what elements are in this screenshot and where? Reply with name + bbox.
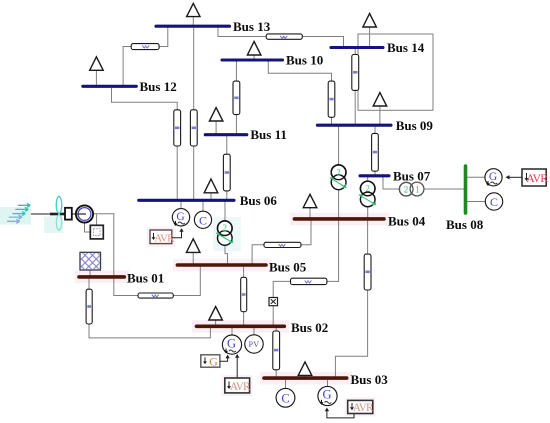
- svg-text:G: G: [322, 388, 331, 402]
- wire bus02 to line02-03: [275, 328, 277, 331]
- svg-text:2: 2: [365, 184, 370, 194]
- generator G1 bus06: [172, 209, 189, 226]
- svg-text:Bus 08: Bus 08: [446, 217, 484, 232]
- wire bus08 to compensator C4: [467, 201, 485, 203]
- wire bus01 to line01-02: [88, 278, 90, 289]
- wire bus03 to compensator C3: [285, 380, 287, 388]
- AVR block bus08: [522, 169, 548, 186]
- bus 01 bar: [79, 275, 124, 279]
- wire stem triangle bus14: [369, 27, 371, 48]
- load triangle bus11: [209, 108, 223, 121]
- wire line12-13 to bus12: [123, 47, 131, 86]
- svg-text:Bus 12: Bus 12: [140, 79, 177, 94]
- transformer 7-4: [359, 181, 376, 207]
- wire stem triangle bus04: [309, 207, 311, 218]
- svg-text:Bus 14: Bus 14: [387, 40, 425, 55]
- svg-text:G: G: [176, 211, 184, 223]
- wind generator: [76, 205, 93, 222]
- svg-text:Bus 01: Bus 01: [127, 271, 164, 286]
- generator G2 bus02: [222, 335, 241, 354]
- bus 09 bar: [317, 124, 391, 127]
- compensator C1 bus06: [194, 211, 211, 228]
- arrow AVR4 to G4: [506, 175, 523, 179]
- wire line03-04 to bus03: [335, 290, 367, 377]
- wire line10-11 to bus11: [235, 115, 237, 134]
- wire three-winding transformer to bus08: [424, 188, 464, 190]
- svg-text:AVR: AVR: [230, 381, 251, 393]
- bus 02 bar: [197, 324, 285, 328]
- wire line06-12 to bus06: [176, 146, 178, 199]
- generator G3 bus03: [318, 386, 337, 405]
- svg-text:AVR: AVR: [154, 232, 175, 244]
- load triangle bus02: [209, 307, 223, 321]
- line block 09-14: [352, 55, 359, 91]
- pink halo AVR bus02: [222, 375, 253, 396]
- load triangle bus12: [90, 57, 104, 71]
- wire bus07 to transformer 7-4: [367, 177, 369, 182]
- cyan backdrop wind arrows: [0, 207, 31, 225]
- AVR block bus03: [348, 400, 374, 414]
- wire line01-02 to bus02: [89, 324, 210, 338]
- svg-text:Bus 04: Bus 04: [388, 214, 426, 229]
- transformer 5-6: [216, 221, 233, 245]
- line block 09-10: [328, 81, 335, 117]
- wire bus10 to line09-10: [268, 61, 331, 81]
- TG block bus02: [201, 354, 220, 368]
- wire bus13 to line06-13: [193, 27, 195, 110]
- pink halo bus 02: [192, 320, 289, 333]
- line block 02-03: [273, 331, 280, 370]
- PV circle bus02: [245, 335, 263, 353]
- wind arrows: [7, 203, 30, 223]
- svg-text:C: C: [490, 195, 498, 209]
- svg-text:Bus 13: Bus 13: [233, 19, 271, 34]
- wire bus14 to line09-14: [354, 49, 356, 55]
- wire stem triangle bus13: [192, 16, 194, 25]
- svg-text:1: 1: [415, 184, 420, 194]
- wire bus06 to compensator C1: [202, 202, 204, 212]
- AVR block bus06: [150, 230, 175, 244]
- line block 02-05: [241, 277, 247, 311]
- line block 10-11: [233, 81, 240, 115]
- svg-text:Bus 02: Bus 02: [291, 320, 328, 335]
- line block 03-04: [364, 254, 371, 290]
- wire stem triangle bus12: [95, 70, 97, 86]
- wire bus13 to line12-13: [159, 27, 168, 47]
- transformer 4-9: [330, 165, 346, 190]
- crosshatch load bus01: [80, 252, 101, 270]
- turbine hub: [50, 213, 65, 216]
- pink halo bus 05: [173, 259, 271, 272]
- svg-text:Bus 10: Bus 10: [286, 53, 323, 68]
- pink halo AVR bus06: [147, 227, 176, 247]
- wire stem triangle bus06: [210, 192, 212, 199]
- wire transformer 4-9 to line02-04 junction: [327, 190, 339, 282]
- AVR block bus02: [225, 378, 251, 393]
- svg-text:G: G: [489, 171, 497, 183]
- wire line01-05 to bus05: [173, 266, 200, 296]
- load triangle bus04: [303, 194, 317, 207]
- line block 06-11: [223, 154, 230, 191]
- pink halo bus 01: [75, 271, 129, 284]
- svg-text:Bus 06: Bus 06: [240, 193, 278, 208]
- load triangle bus10: [247, 42, 261, 56]
- pink halo bus 03: [260, 372, 352, 385]
- wire wind generator to converter box: [85, 223, 91, 232]
- wire bus06 to transformer 5-6: [224, 202, 226, 222]
- bus 10 bar: [222, 58, 283, 61]
- arrow AVR2 to G2: [235, 354, 239, 378]
- wire line07-09 to bus07: [374, 171, 376, 174]
- wire bus12 to line06-12: [112, 88, 178, 110]
- wire stem triangle bus09: [379, 106, 381, 125]
- compensator C3 bus03: [276, 388, 295, 407]
- svg-text:Bus 09: Bus 09: [396, 118, 434, 133]
- svg-text:Bus 05: Bus 05: [269, 260, 307, 275]
- svg-text:AVR: AVR: [353, 402, 374, 414]
- converter box: [90, 225, 103, 239]
- pink halo bus 04: [290, 213, 389, 226]
- arrow AVR3 to G3: [325, 408, 354, 418]
- svg-text:Bus 07: Bus 07: [393, 168, 431, 183]
- wire line09-10 to bus09: [331, 117, 333, 124]
- wire bus02 to generator G2: [231, 328, 233, 335]
- breaker box bus02: [269, 298, 278, 306]
- wire bus06 to generator G1: [180, 202, 182, 209]
- wire bus05 to line04-05: [252, 245, 264, 264]
- wire bus02 to PV: [253, 328, 255, 335]
- cyan backdrop rotor: [44, 217, 63, 234]
- wire bus03 to generator G3: [327, 380, 329, 386]
- wire stem triangle bus10: [253, 55, 255, 60]
- line block 12-13: [131, 44, 159, 50]
- wire turbine to bus01 and line01-05: [92, 214, 138, 296]
- svg-text:Bus 11: Bus 11: [250, 127, 287, 142]
- compensator C4 bus08: [485, 193, 502, 210]
- svg-text:G: G: [227, 336, 236, 350]
- line block 13-14: [266, 34, 302, 39]
- wire line06-13 to bus06: [193, 146, 195, 199]
- line block 07-09: [372, 133, 379, 171]
- svg-text:Bus 03: Bus 03: [351, 372, 389, 387]
- wire line04-05 to bus04: [301, 220, 311, 245]
- svg-text:G: G: [209, 354, 218, 368]
- line block 04-05: [264, 242, 301, 247]
- pink halo AVR bus03: [345, 398, 376, 417]
- bus 11 bar: [205, 133, 247, 136]
- turbine shaft: [31, 213, 86, 215]
- bus 08 bar: [464, 166, 468, 213]
- wire bus10 to line10-11: [235, 61, 237, 81]
- svg-text:PV: PV: [248, 340, 259, 349]
- arrow AVR1 to G1: [172, 228, 184, 238]
- line block 06-12: [174, 110, 181, 146]
- line block 02-04: [291, 278, 327, 284]
- wire loop bus14: [358, 34, 433, 110]
- turbine blades: [56, 196, 62, 230]
- wire stem triangle bus11: [215, 121, 217, 135]
- wire stem triangle bus05: [192, 252, 194, 264]
- svg-text:2: 2: [404, 185, 409, 195]
- bus 13 bar: [156, 25, 230, 28]
- wire line02-03 to bus03: [275, 370, 277, 377]
- load triangle bus05: [186, 239, 200, 253]
- bus 05 bar: [177, 263, 266, 267]
- svg-text:C: C: [199, 213, 207, 227]
- cyan backdrop transformer 5-6: [213, 217, 241, 251]
- wire transformer 7-4 to bus04: [367, 206, 369, 218]
- wire line06-11 to bus06: [226, 191, 228, 199]
- arrow TG to G2: [220, 355, 230, 362]
- svg-text:C: C: [281, 392, 289, 406]
- line block 06-13: [190, 110, 197, 146]
- bus 12 bar: [83, 85, 137, 88]
- svg-text:2: 2: [336, 167, 341, 177]
- wire crosshatch load to bus01: [89, 270, 91, 276]
- wire line02-04 to breaker: [273, 281, 290, 297]
- gearbox: [65, 208, 72, 220]
- wire line13-14 to bus14: [302, 37, 343, 48]
- load triangle bus03: [298, 362, 312, 376]
- wire breaker to bus02: [272, 306, 274, 325]
- bus 03 bar: [264, 376, 347, 380]
- wire bus05 to line02-05: [243, 266, 245, 277]
- load triangle bus09: [373, 93, 387, 106]
- load triangle bus13: [187, 3, 200, 16]
- load triangle bus14: [363, 14, 377, 28]
- bus 04 bar: [294, 217, 384, 221]
- wire stem triangle bus02: [215, 320, 217, 326]
- wire line09-14 to bus09: [354, 90, 356, 124]
- wire line02-05 to bus02: [243, 312, 245, 325]
- bus 06 bar: [139, 199, 234, 202]
- wire bus11 to line06-11: [226, 136, 228, 154]
- generator G4 bus08: [485, 169, 502, 186]
- bus 07 bar: [360, 174, 389, 177]
- wire converter box to shaft wire: [96, 214, 98, 226]
- line block 01-02: [86, 289, 92, 324]
- line block 01-05: [138, 293, 173, 298]
- wire bus08 to generator G4: [467, 176, 485, 178]
- wire transformer 5-6 to bus05: [225, 245, 228, 264]
- wire bus09 to transformer 4-9: [338, 126, 340, 165]
- three-winding transformer bus07-08: [399, 182, 423, 196]
- wire bus07 to three-winding transformer: [383, 177, 399, 189]
- bus 14 bar: [331, 46, 383, 49]
- wire bus13 to line13-14: [218, 27, 266, 37]
- wire stem triangle bus03: [304, 375, 306, 377]
- svg-text:AVR: AVR: [526, 171, 548, 185]
- wire bus04 to line03-04: [367, 220, 369, 254]
- wire bus09 to line07-09: [374, 126, 376, 133]
- load triangle bus06: [204, 179, 218, 193]
- svg-text:2: 2: [223, 223, 228, 233]
